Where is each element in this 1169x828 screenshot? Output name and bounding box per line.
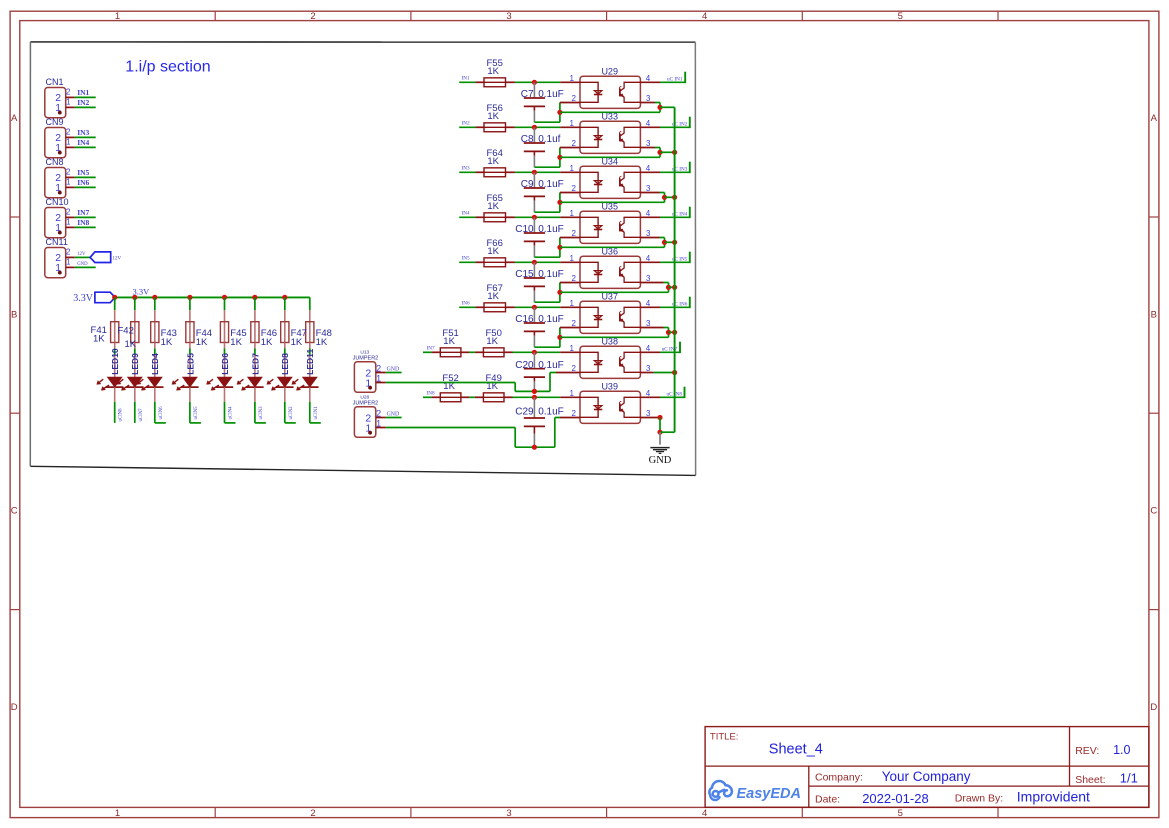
svg-text:1.0: 1.0 bbox=[1113, 743, 1130, 757]
svg-text:C7: C7 bbox=[521, 89, 534, 100]
svg-text:IN6: IN6 bbox=[77, 178, 89, 187]
svg-text:5: 5 bbox=[898, 11, 903, 22]
svg-text:1K: 1K bbox=[316, 337, 328, 348]
svg-text:D: D bbox=[1150, 702, 1157, 713]
svg-text:IN7: IN7 bbox=[427, 345, 435, 351]
svg-text:1K: 1K bbox=[161, 337, 173, 348]
svg-text:1K: 1K bbox=[487, 156, 499, 167]
svg-text:U36: U36 bbox=[601, 246, 618, 256]
svg-text:C9: C9 bbox=[521, 179, 534, 190]
svg-text:IN2: IN2 bbox=[462, 120, 470, 126]
svg-text:TITLE:: TITLE: bbox=[710, 731, 739, 742]
svg-text:uCIN1: uCIN1 bbox=[314, 406, 319, 420]
svg-text:C8: C8 bbox=[521, 134, 534, 145]
svg-text:IN1: IN1 bbox=[462, 75, 470, 81]
svg-text:1: 1 bbox=[115, 11, 120, 22]
svg-text:1K: 1K bbox=[291, 337, 303, 348]
svg-text:IN1: IN1 bbox=[77, 88, 89, 97]
svg-text:U39: U39 bbox=[601, 381, 618, 391]
svg-text:uCIN4: uCIN4 bbox=[229, 406, 234, 420]
svg-text:uCIN2: uCIN2 bbox=[289, 406, 294, 420]
svg-text:Company:: Company: bbox=[815, 771, 863, 783]
svg-text:C: C bbox=[11, 506, 18, 517]
svg-text:LED8: LED8 bbox=[280, 353, 290, 375]
svg-text:C16: C16 bbox=[515, 314, 534, 325]
svg-text:U33: U33 bbox=[601, 111, 618, 121]
svg-text:D: D bbox=[11, 702, 18, 713]
svg-text:0.1uf: 0.1uf bbox=[538, 134, 560, 145]
svg-text:Drawn By:: Drawn By: bbox=[955, 792, 1003, 804]
svg-text:1: 1 bbox=[115, 808, 120, 819]
svg-text:1: 1 bbox=[66, 138, 71, 147]
svg-text:U34: U34 bbox=[601, 156, 618, 166]
svg-text:Improvident: Improvident bbox=[1017, 788, 1090, 804]
svg-text:2: 2 bbox=[310, 808, 315, 819]
svg-text:0.1uF: 0.1uF bbox=[538, 269, 564, 280]
svg-text:uCIN8: uCIN8 bbox=[119, 408, 124, 422]
svg-text:LED9: LED9 bbox=[130, 353, 140, 375]
svg-text:1K: 1K bbox=[486, 336, 498, 347]
svg-text:LED10: LED10 bbox=[110, 348, 120, 375]
svg-text:A: A bbox=[1151, 113, 1158, 124]
svg-text:JUMPER2: JUMPER2 bbox=[353, 356, 379, 362]
svg-text:2: 2 bbox=[66, 208, 71, 217]
svg-text:IN3: IN3 bbox=[77, 128, 89, 137]
svg-text:B: B bbox=[11, 309, 17, 320]
svg-text:Sheet:: Sheet: bbox=[1075, 774, 1105, 786]
svg-text:IN5: IN5 bbox=[462, 255, 470, 261]
svg-text:Sheet_4: Sheet_4 bbox=[769, 742, 823, 758]
svg-text:1K: 1K bbox=[487, 201, 499, 212]
svg-text:1K: 1K bbox=[487, 291, 499, 302]
svg-text:CN8: CN8 bbox=[46, 157, 64, 167]
svg-text:C: C bbox=[1150, 506, 1157, 517]
svg-text:uCIN5: uCIN5 bbox=[194, 406, 199, 420]
svg-text:0.1uF: 0.1uF bbox=[538, 314, 564, 325]
svg-text:EasyEDA: EasyEDA bbox=[737, 786, 801, 802]
svg-text:3: 3 bbox=[506, 11, 511, 22]
svg-text:1K: 1K bbox=[261, 337, 273, 348]
svg-text:1.i/p section: 1.i/p section bbox=[125, 59, 210, 76]
svg-text:4: 4 bbox=[702, 11, 707, 22]
svg-text:LED5: LED5 bbox=[185, 353, 195, 375]
svg-text:IN6: IN6 bbox=[462, 300, 470, 306]
svg-text:IN3: IN3 bbox=[462, 165, 470, 171]
svg-text:0.1uF: 0.1uF bbox=[538, 179, 564, 190]
svg-text:0.1uF: 0.1uF bbox=[538, 407, 564, 418]
svg-text:3: 3 bbox=[506, 808, 511, 819]
svg-text:IN8: IN8 bbox=[77, 218, 89, 227]
svg-text:LED4: LED4 bbox=[150, 353, 160, 375]
svg-text:Your Company: Your Company bbox=[882, 769, 971, 784]
svg-text:2: 2 bbox=[66, 88, 71, 97]
svg-text:1K: 1K bbox=[487, 111, 499, 122]
svg-text:3.3V: 3.3V bbox=[133, 286, 151, 296]
svg-text:2: 2 bbox=[66, 168, 71, 177]
svg-text:3.3V: 3.3V bbox=[73, 293, 94, 304]
svg-text:IN8: IN8 bbox=[427, 390, 435, 396]
svg-text:B: B bbox=[1151, 309, 1157, 320]
svg-text:1: 1 bbox=[66, 218, 71, 227]
svg-text:1/1: 1/1 bbox=[1120, 771, 1138, 786]
svg-text:IN5: IN5 bbox=[77, 168, 89, 177]
svg-text:0.1uF: 0.1uF bbox=[538, 360, 564, 371]
svg-text:uCIN7: uCIN7 bbox=[139, 408, 144, 422]
svg-text:IN4: IN4 bbox=[77, 138, 89, 147]
svg-text:1K: 1K bbox=[196, 337, 208, 348]
svg-text:GND: GND bbox=[387, 366, 400, 372]
svg-text:12V: 12V bbox=[77, 252, 86, 257]
svg-text:A: A bbox=[11, 113, 18, 124]
svg-text:1: 1 bbox=[66, 178, 71, 187]
svg-text:2: 2 bbox=[310, 11, 315, 22]
svg-text:C29: C29 bbox=[515, 407, 534, 418]
svg-text:IN7: IN7 bbox=[77, 208, 89, 217]
svg-text:Date:: Date: bbox=[815, 794, 840, 806]
svg-text:uCIN6: uCIN6 bbox=[159, 406, 164, 420]
svg-text:JUMPER2: JUMPER2 bbox=[353, 401, 379, 407]
svg-text:LED6: LED6 bbox=[220, 353, 230, 375]
svg-text:1: 1 bbox=[66, 258, 71, 267]
svg-text:C20: C20 bbox=[515, 360, 534, 371]
svg-text:0.1uF: 0.1uF bbox=[538, 224, 564, 235]
svg-text:5: 5 bbox=[898, 808, 903, 819]
svg-text:1K: 1K bbox=[125, 339, 137, 350]
svg-text:GND: GND bbox=[649, 455, 672, 466]
svg-text:C10: C10 bbox=[515, 224, 534, 235]
svg-text:1: 1 bbox=[66, 98, 71, 107]
svg-text:U35: U35 bbox=[601, 201, 618, 211]
svg-text:GND: GND bbox=[77, 262, 88, 267]
svg-text:1K: 1K bbox=[93, 334, 105, 345]
svg-text:uCIN3: uCIN3 bbox=[259, 406, 264, 420]
svg-text:REV:: REV: bbox=[1075, 745, 1099, 757]
svg-text:GND: GND bbox=[387, 411, 400, 417]
svg-text:IN2: IN2 bbox=[77, 98, 89, 107]
svg-text:1K: 1K bbox=[443, 336, 455, 347]
svg-text:2: 2 bbox=[66, 128, 71, 137]
svg-text:2: 2 bbox=[66, 248, 71, 257]
svg-text:F42: F42 bbox=[118, 326, 134, 337]
svg-text:IN4: IN4 bbox=[462, 210, 470, 216]
svg-text:1K: 1K bbox=[487, 66, 499, 77]
svg-text:LED11: LED11 bbox=[305, 349, 315, 375]
svg-text:12V: 12V bbox=[113, 256, 122, 261]
svg-text:LED7: LED7 bbox=[250, 353, 260, 375]
svg-text:1K: 1K bbox=[230, 337, 242, 348]
svg-text:CN11: CN11 bbox=[46, 237, 68, 247]
svg-text:CN1: CN1 bbox=[46, 77, 64, 87]
svg-text:U29: U29 bbox=[601, 66, 618, 76]
svg-text:4: 4 bbox=[702, 808, 707, 819]
svg-text:0.1uF: 0.1uF bbox=[538, 89, 564, 100]
svg-text:C15: C15 bbox=[515, 269, 534, 280]
svg-text:U38: U38 bbox=[601, 336, 618, 346]
svg-text:U37: U37 bbox=[601, 291, 618, 301]
svg-text:CN9: CN9 bbox=[46, 117, 64, 127]
svg-text:2022-01-28: 2022-01-28 bbox=[862, 791, 929, 806]
svg-text:CN10: CN10 bbox=[46, 197, 69, 207]
svg-text:uC IN1: uC IN1 bbox=[667, 77, 683, 83]
svg-text:1K: 1K bbox=[487, 246, 499, 257]
